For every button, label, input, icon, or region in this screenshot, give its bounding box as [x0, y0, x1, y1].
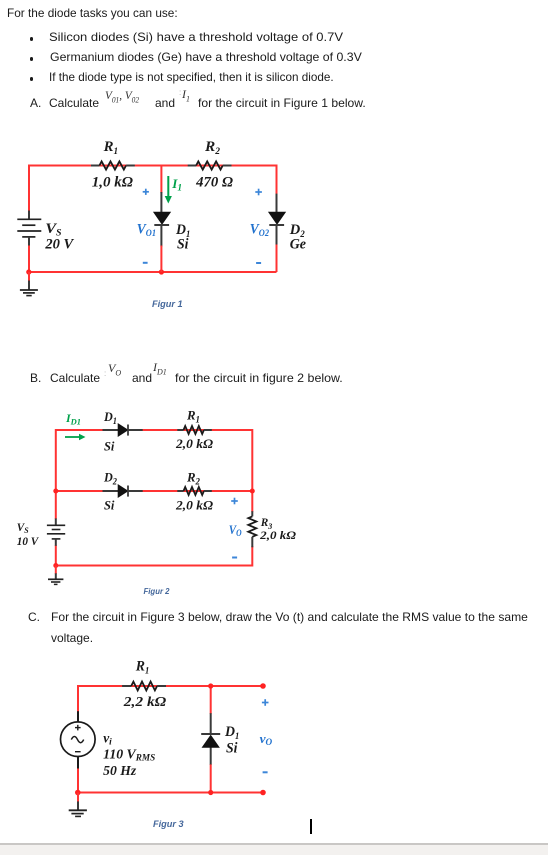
- svg-text:470 Ω: 470 Ω: [195, 175, 233, 191]
- svg-text:Figur 3: Figur 3: [153, 819, 184, 829]
- battery VS fig2: [47, 518, 65, 545]
- plus sign right fig1: [255, 189, 262, 196]
- label 2,0 kOhm top fig2: [175, 437, 214, 451]
- svg-text:Figur 1: Figur 1: [152, 299, 183, 309]
- diode D2 fig1: [269, 212, 286, 225]
- label vi fig3: [103, 730, 112, 747]
- wire right fig1: [276, 165, 278, 273]
- junction dot mid-bottom fig1: [159, 269, 164, 274]
- terminal dot top-right fig3: [260, 683, 266, 689]
- ground fig1: [20, 281, 38, 296]
- wire ground stem fig3: [77, 793, 79, 803]
- resistor R2 fig2: [177, 487, 212, 495]
- item A text: [30, 96, 41, 111]
- label VO fig2: [229, 522, 242, 538]
- wire bottom fig2: [56, 565, 253, 567]
- svg-text:R1: R1: [103, 139, 119, 156]
- wire top fig1: [29, 165, 277, 167]
- svg-text:110 VRMS: 110 VRMS: [103, 746, 155, 762]
- current arrow ID1 fig2: [65, 434, 86, 441]
- svg-text:R1: R1: [135, 659, 149, 676]
- diode D1 fig2: [103, 424, 143, 437]
- battery VS fig1: [17, 211, 41, 246]
- wire diode branch fig3: [210, 686, 212, 793]
- ground fig2: [48, 573, 63, 584]
- diode D1 fig1: [154, 212, 171, 225]
- label 50 Hz fig3: [103, 763, 137, 778]
- bullet 1: [30, 37, 34, 41]
- plus sign fig2: [231, 498, 238, 505]
- wire diode branch D1 fig1: [160, 166, 162, 273]
- current arrow I1 fig1: [165, 176, 172, 204]
- wire top fig3: [78, 685, 263, 687]
- terminal dot bottom-right fig3: [260, 790, 266, 796]
- minus sign mid fig1: [143, 262, 148, 264]
- ac source VI fig3: [61, 722, 96, 757]
- resistor R3 fig2: [248, 511, 256, 547]
- junction dot left-bottom fig2: [53, 563, 58, 568]
- label R1 fig2: [186, 408, 200, 425]
- wire right fig2: [251, 429, 253, 567]
- FIGURE 3: [0, 650, 340, 840]
- FIGURE 2: [0, 400, 340, 610]
- label I1 fig1: [171, 177, 182, 193]
- svg-text:Si: Si: [177, 236, 189, 252]
- label D1 Si fig2: [103, 409, 117, 454]
- FIGURE 1: [0, 130, 340, 320]
- resistor R1 fig1: [91, 161, 135, 169]
- svg-text:Si: Si: [104, 439, 115, 454]
- caption Figur 2: [144, 587, 171, 596]
- svg-text:2,0 kΩ: 2,0 kΩ: [175, 437, 214, 451]
- label 2,2 kOhm fig3: [123, 694, 167, 709]
- item C text: [28, 610, 40, 625]
- label R1 fig1: [103, 139, 119, 156]
- label R1 fig3: [135, 659, 149, 676]
- label V01 fig1: [137, 222, 156, 239]
- label VS 20V fig1: [44, 221, 74, 252]
- svg-text:D1: D1: [103, 409, 117, 426]
- wire left fig3: [77, 685, 79, 794]
- svg-text:D2: D2: [103, 470, 117, 487]
- label D2 Si fig2: [103, 470, 117, 513]
- svg-text:2,2 kΩ: 2,2 kΩ: [123, 694, 167, 709]
- junction dot top-mid fig3: [208, 683, 213, 688]
- minus sign fig2: [232, 557, 237, 559]
- junction dot bottom-left fig3: [75, 790, 81, 796]
- svg-text:2,0 kΩ: 2,0 kΩ: [175, 499, 214, 513]
- label 1,0 kOhm fig1: [92, 175, 133, 191]
- svg-text:I1: I1: [171, 177, 182, 193]
- svg-text:D1: D1: [224, 724, 239, 741]
- wire bottom fig3: [78, 792, 263, 794]
- wire top fig2: [56, 429, 253, 431]
- svg-text:Si: Si: [104, 498, 115, 513]
- label D1 Si fig3: [224, 724, 239, 756]
- minus sign right fig1: [256, 262, 261, 264]
- svg-text:R3: R3: [260, 515, 273, 531]
- svg-text:R2: R2: [204, 139, 221, 156]
- svg-text:Figur 2: Figur 2: [144, 587, 171, 596]
- label V02 fig1: [250, 222, 270, 239]
- wire middle fig2: [56, 490, 253, 492]
- junction dot left-middle fig2: [53, 489, 58, 494]
- label 470 Ohm fig1: [195, 175, 233, 191]
- resistor R1 fig3: [122, 682, 166, 691]
- svg-text:10 V: 10 V: [17, 534, 39, 548]
- text cursor: [310, 819, 312, 834]
- junction dot left-bottom fig1: [26, 269, 31, 274]
- wire left fig1: [28, 165, 30, 273]
- svg-text:2,0 kΩ: 2,0 kΩ: [259, 530, 296, 542]
- svg-text:1,0 kΩ: 1,0 kΩ: [92, 175, 133, 191]
- label R3 fig2: [260, 515, 273, 531]
- page bottom grey strip: [0, 845, 548, 855]
- svg-text:VO1: VO1: [137, 222, 156, 239]
- label R2 fig2: [186, 470, 200, 487]
- svg-text:ID1: ID1: [65, 411, 81, 427]
- wire ground stem fig2: [55, 566, 57, 575]
- junction dot bottom-mid fig3: [208, 790, 213, 795]
- wire ground stem fig1: [28, 272, 30, 281]
- label D1 Si fig1: [175, 222, 190, 252]
- svg-text:vi: vi: [103, 730, 112, 747]
- svg-text:Si: Si: [226, 740, 238, 756]
- svg-text:VS: VS: [17, 520, 29, 535]
- bullet 3: [30, 77, 34, 81]
- svg-text:vO: vO: [260, 731, 273, 747]
- svg-text:R1: R1: [186, 408, 200, 425]
- svg-text:VO2: VO2: [250, 222, 270, 239]
- resistor R1 fig2: [177, 426, 212, 434]
- svg-text:20 V: 20 V: [44, 236, 74, 252]
- svg-text:VO: VO: [229, 522, 242, 538]
- resistor R2 fig1: [188, 161, 232, 169]
- junction dot right-middle fig2: [250, 489, 255, 494]
- label VS 10V fig2: [17, 520, 39, 548]
- wire bottom fig1: [29, 271, 277, 273]
- page bottom edge line: [0, 843, 548, 845]
- label ID1 fig2: [65, 411, 81, 427]
- svg-text:R2: R2: [186, 470, 200, 487]
- label R2 fig1: [204, 139, 221, 156]
- label vo fig3: [260, 731, 273, 747]
- plus sign mid fig1: [143, 189, 149, 195]
- svg-text:VS: VS: [45, 221, 61, 238]
- caption Figur 1: [152, 299, 183, 309]
- label 110 VRMS fig3: [103, 746, 155, 762]
- minus sign fig3: [263, 771, 268, 773]
- caption Figur 3: [153, 819, 184, 829]
- svg-text:50 Hz: 50 Hz: [103, 763, 137, 778]
- ground fig3: [69, 801, 87, 816]
- label 2,0 kOhm mid fig2: [175, 499, 214, 513]
- label D2 Ge fig1: [289, 222, 307, 252]
- svg-text:Ge: Ge: [290, 236, 307, 252]
- diode D1 fig3: [201, 734, 220, 747]
- diode D2 fig2: [103, 485, 143, 498]
- ac source stems fig3: [77, 711, 79, 768]
- bullet 2: [30, 57, 34, 61]
- item B text: [30, 371, 41, 386]
- intro text: [7, 6, 178, 21]
- label 2,0 kOhm right fig2: [259, 530, 296, 542]
- wire left fig2: [55, 429, 57, 567]
- plus sign fig3: [262, 699, 269, 706]
